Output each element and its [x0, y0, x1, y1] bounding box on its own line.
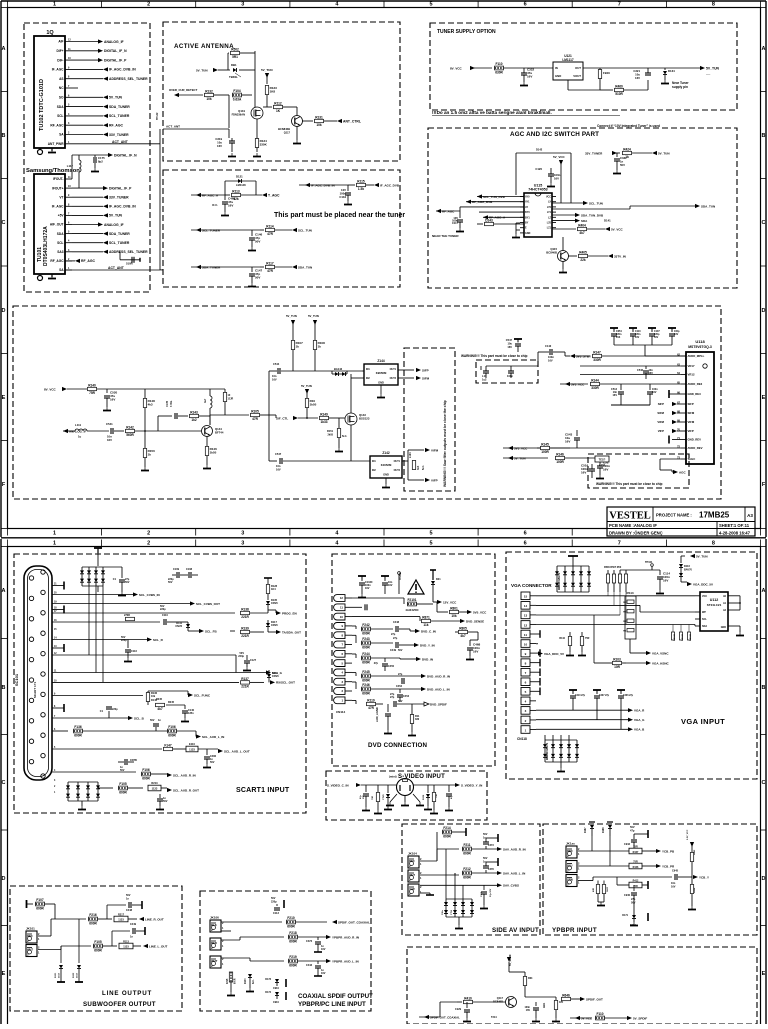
scart esd diode array bottom — [67, 782, 69, 801]
svg-text:5V_TUN: 5V_TUN — [109, 96, 123, 100]
cap C478 — [485, 870, 487, 873]
U118 pin 73 TAGC — [681, 458, 686, 460]
svg-text:C547: C547 — [506, 338, 513, 342]
svg-text:R132: R132 — [205, 89, 213, 93]
capacitor C322 — [521, 72, 527, 74]
net 3V3_VCC pin65 — [565, 382, 570, 386]
svg-text:5V_TUN: 5V_TUN — [706, 66, 720, 70]
U115 left pin AY0 — [520, 196, 524, 198]
svg-text:5V5_VCC: 5V5_VCC — [473, 610, 487, 614]
res R432 pair — [597, 881, 599, 885]
svg-text:WARNING!!! This part must be: WARNING!!! This part must be close to ch… — [461, 354, 527, 358]
res R137 row — [52, 681, 239, 683]
svg-text:R110: R110 — [559, 637, 565, 640]
svg-text:F218: F218 — [289, 931, 296, 935]
svg-text:560R: 560R — [126, 433, 134, 437]
svg-text:R149: R149 — [320, 412, 328, 416]
capacitor C321 — [645, 72, 651, 74]
svg-text:D100: D100 — [245, 978, 247, 984]
net SCL_FB — [188, 630, 199, 632]
svg-text:F219: F219 — [289, 955, 296, 959]
svg-text:BC846B: BC846B — [546, 250, 557, 254]
svg-text:16V: 16V — [473, 650, 478, 654]
svg-text:1133: 1133 — [152, 786, 158, 790]
net SDA_TUN_DVB — [552, 214, 575, 216]
svg-text:TA/SDA_OUT: TA/SDA_OUT — [282, 630, 301, 634]
svg-text:16V: 16V — [507, 345, 512, 349]
svg-text:330R: 330R — [591, 386, 599, 390]
cap C443 coax — [317, 961, 319, 964]
svg-text:33V_TUNER: 33V_TUNER — [585, 151, 603, 155]
svg-text:C544: C544 — [273, 362, 280, 366]
svg-text:600R: 600R — [168, 733, 176, 737]
net SAV_CVBS — [497, 883, 502, 887]
capacitor C142 top — [549, 349, 551, 355]
svg-text:330K: 330K — [260, 143, 268, 147]
svg-text:F211: F211 — [463, 843, 470, 847]
cap C115 sideav — [483, 885, 485, 890]
svg-text:4-28-2008 16:47: 4-28-2008 16:47 — [719, 531, 751, 536]
svg-text:GND: GND — [383, 473, 389, 477]
svg-text:16V: 16V — [565, 440, 570, 444]
svg-text:SCL_AUD_L_IN: SCL_AUD_L_IN — [202, 735, 224, 739]
svg-text:4A/24VDC: 4A/24VDC — [405, 608, 418, 612]
svg-text:C108: C108 — [186, 568, 193, 571]
svg-text:DIGITAL_IF_P: DIGITAL_IF_P — [104, 58, 127, 62]
fuse F106 audio — [168, 729, 177, 733]
diode D114 — [267, 674, 271, 678]
cap C452 — [401, 678, 403, 684]
svg-text:R131: R131 — [315, 115, 323, 119]
net SPDIF_OUT_COAXIAL spdif — [424, 1015, 429, 1019]
active antenna dashed box — [163, 22, 400, 161]
svg-text:D141: D141 — [604, 219, 611, 223]
jack JK105 red — [566, 846, 577, 858]
svg-text:6: 6 — [524, 2, 527, 8]
svg-text:F214: F214 — [443, 826, 450, 830]
diode D117 — [266, 623, 270, 627]
svg-text:supply pin: supply pin — [672, 85, 688, 89]
svg-text:YLW: YLW — [409, 887, 415, 891]
svg-text:C115: C115 — [481, 891, 483, 897]
TU101 mount stub — [38, 276, 43, 281]
scart nc stub 4 — [52, 707, 64, 709]
svg-text:16V: 16V — [110, 398, 115, 402]
wire Q143 source — [350, 425, 352, 461]
resistor R152 tagc — [595, 456, 609, 462]
net TA SDA_OUT — [268, 631, 276, 633]
jack JK106 red — [210, 938, 221, 950]
svg-text:R443: R443 — [693, 849, 696, 855]
svg-text:D102: D102 — [73, 972, 75, 978]
sideav ylw stub — [420, 892, 430, 894]
svg-text:MMBZ15VDLT1: MMBZ15VDLT1 — [546, 742, 549, 760]
resistor R146 — [556, 456, 565, 459]
wire IFOUT+ — [72, 187, 103, 189]
svg-text:5V_VCC: 5V_VCC — [611, 227, 624, 231]
cap pair C109 C108 — [176, 572, 178, 578]
svg-text:OUT2: OUT2 — [394, 469, 401, 472]
svg-text:27p: 27p — [393, 637, 398, 640]
svg-text:F244: F244 — [362, 652, 369, 656]
cap C453 — [399, 689, 401, 693]
svg-text:DVD_Y_IN: DVD_Y_IN — [420, 643, 435, 647]
net SCL_AUD_R_OUT — [167, 788, 172, 792]
resistor R112 — [263, 106, 272, 108]
wire SA ACT_ANT — [65, 269, 160, 271]
U118 pin 71 GND_REV — [681, 439, 686, 441]
diode D111 row — [186, 624, 190, 628]
svg-text:SIFM: SIFM — [422, 376, 430, 380]
svg-text:4k3: 4k3 — [148, 403, 153, 407]
svg-text:F105: F105 — [94, 940, 101, 944]
svg-text:IF_AGC_DVB: IF_AGC_DVB — [380, 183, 400, 187]
net AGC — [673, 470, 678, 474]
svg-text:C142: C142 — [545, 344, 552, 348]
svg-text:SCL_TUN: SCL_TUN — [589, 201, 603, 205]
svg-text:3: 3 — [241, 541, 244, 547]
transistor Q117 BCN846B — [292, 116, 303, 127]
svg-text:F216: F216 — [89, 913, 96, 917]
fuse F108 audio L in — [52, 730, 68, 732]
svg-text:E110: E110 — [189, 742, 195, 746]
net DIGITAL_IF_P — [103, 186, 108, 190]
svg-text:75R: 75R — [436, 794, 438, 798]
svg-text:R404: R404 — [578, 223, 586, 227]
fuse F110 spdif — [596, 1016, 605, 1020]
ground Z144 — [380, 385, 382, 394]
svg-text:12V_VCC: 12V_VCC — [443, 600, 457, 604]
svg-text:R152: R152 — [599, 463, 606, 467]
wire scart B row — [52, 717, 128, 719]
cap C486 — [206, 749, 208, 755]
svg-text:330R: 330R — [593, 358, 601, 362]
transistor Q115 BC846B — [558, 251, 569, 262]
fuse F212 — [420, 874, 459, 876]
wire gate join — [228, 95, 230, 128]
fuse F210 — [221, 921, 282, 923]
svg-text:5102: 5102 — [77, 972, 79, 978]
svg-text:CNV6: CNV6 — [271, 624, 278, 627]
svg-text:RF_AGC: RF_AGC — [109, 124, 123, 128]
svg-text:SCL_AUD_R_IN: SCL_AUD_R_IN — [173, 773, 196, 777]
net 5V_TUN — [72, 214, 103, 216]
svg-text:T214: T214 — [491, 1016, 497, 1019]
capacitor C547 top — [514, 338, 522, 340]
resistor R128 prog — [266, 585, 269, 594]
wire collector row — [209, 415, 211, 425]
svg-text:GND: GND — [378, 381, 384, 385]
svg-text:SAV_CVBS: SAV_CVBS — [503, 884, 519, 888]
cap C473 coax — [317, 937, 319, 940]
svg-text:16V: 16V — [217, 144, 222, 148]
cap C119 dvd — [387, 704, 389, 712]
svg-text:PROJECT NAME :: PROJECT NAME : — [656, 513, 692, 518]
near tuner dashed box — [163, 170, 400, 287]
svg-text:SDA_TUNER: SDA_TUNER — [109, 105, 130, 109]
svg-text:R142: R142 — [126, 425, 134, 429]
svg-text:VGA_G: VGA_G — [634, 718, 645, 722]
svg-text:C134: C134 — [339, 195, 346, 199]
svg-text:R446: R446 — [633, 866, 639, 869]
svg-text:TP101: TP101 — [645, 561, 653, 564]
svg-text:10k: 10k — [206, 97, 212, 101]
res R646b — [562, 997, 571, 1000]
svg-text:ADDRESS_SEL_TUNER: ADDRESS_SEL_TUNER — [109, 250, 148, 254]
svg-text:DIF+: DIF+ — [57, 49, 64, 53]
svg-text:16V: 16V — [603, 468, 608, 472]
svg-text:IN: IN — [555, 66, 558, 70]
svg-text:CN114: CN114 — [336, 710, 346, 714]
U118 pin 72 AVDD_REV — [681, 447, 686, 449]
wire drain rail — [254, 51, 256, 96]
svg-text:YCB_PR: YCB_PR — [662, 864, 675, 868]
svg-text:50V: 50V — [210, 761, 215, 764]
svg-text:C546: C546 — [637, 369, 644, 372]
res R217 — [114, 916, 128, 922]
net SDA_TUN — [292, 265, 297, 269]
svg-text:2: 2 — [147, 531, 150, 537]
svg-text:A: A — [762, 46, 766, 52]
net T_AGC — [262, 193, 267, 197]
svg-text:D168: D168 — [603, 827, 605, 833]
inductor L117 — [79, 160, 81, 172]
U118 pin 62 AVDD_MPLL — [681, 355, 686, 357]
svg-text:C117: C117 — [452, 221, 459, 225]
svg-text:SC101: SC101 — [14, 673, 19, 686]
wire dvd 11 — [352, 606, 362, 608]
wire source down — [256, 119, 258, 152]
resistor R147 — [593, 354, 602, 357]
svg-text:JK101: JK101 — [26, 927, 35, 931]
net DVD_C_IN — [415, 629, 420, 633]
svg-text:C942: C942 — [624, 843, 631, 846]
net SIFM from Z144 — [398, 377, 414, 379]
svg-text:R502: R502 — [231, 47, 239, 51]
svg-text:16V: 16V — [107, 438, 112, 442]
scart vertical bus — [88, 586, 90, 655]
svg-text:SO: SO — [59, 96, 64, 100]
res R444 — [691, 877, 693, 884]
svg-text:1k: 1k — [296, 345, 300, 349]
svg-text:5V_SPDIF: 5V_SPDIF — [509, 954, 512, 966]
svg-text:1k: 1k — [148, 453, 152, 457]
net LINE_L_OUT — [143, 944, 148, 948]
svg-text:1: 1 — [53, 541, 56, 547]
resistor R151 NC — [338, 418, 340, 428]
vga wire p2 G — [536, 719, 628, 721]
svg-text:600R: 600R — [362, 660, 370, 664]
saw warning dashed box — [404, 348, 455, 491]
svg-text:S_VIDEO_C_IN: S_VIDEO_C_IN — [327, 783, 349, 787]
svg-text:5V_SPDIF: 5V_SPDIF — [633, 1016, 647, 1020]
capacitor C319 — [228, 129, 230, 138]
U115 left pin BY — [520, 222, 524, 224]
svg-text:F212: F212 — [463, 867, 470, 871]
svg-text:16V: 16V — [526, 1009, 531, 1012]
svg-text:MMBZ15VDLT1: MMBZ15VDLT1 — [558, 572, 561, 590]
svg-text:SCL: SCL — [702, 618, 707, 621]
svg-text:IF_AGC_DVB_IN: IF_AGC_DVB_IN — [109, 205, 136, 209]
net DVD_Y_IN — [414, 643, 419, 647]
svg-text:D: D — [762, 308, 766, 314]
spdif driver dashed box — [407, 947, 757, 1024]
svg-text:RED: RED — [409, 859, 415, 863]
svg-text:6: 6 — [524, 541, 527, 547]
net VGA_VSNC — [629, 639, 631, 653]
fuse F215 vertical — [230, 931, 232, 972]
U115 gnd stub — [515, 223, 517, 234]
svg-text:12: 12 — [524, 623, 528, 627]
svg-text:YPBPR_AUD_R_IN: YPBPR_AUD_R_IN — [332, 935, 359, 939]
svg-text:AS: AS — [59, 77, 63, 81]
svg-text:4k64: 4k64 — [543, 1002, 546, 1008]
capacitor C146 — [251, 230, 253, 236]
bottom warning dashed box — [588, 454, 689, 488]
net 5V_VCC spdif — [575, 1016, 580, 1020]
res R129 330 — [126, 617, 135, 620]
resistor network RS13 — [625, 596, 636, 639]
wire emitter ground — [296, 127, 298, 141]
svg-text:16V: 16V — [674, 333, 679, 336]
svg-text:C: C — [2, 220, 6, 226]
U118 pin72 wire — [528, 447, 681, 449]
svg-text:R412: R412 — [633, 879, 639, 882]
net SCL_R — [147, 637, 152, 641]
svg-text:F215: F215 — [227, 978, 229, 984]
connector CN114 — [334, 595, 345, 602]
svg-text:AGC: AGC — [679, 470, 687, 474]
svg-text:R447: R447 — [633, 851, 639, 854]
svg-text:R805: R805 — [459, 626, 467, 630]
svg-text:SCL_B: SCL_B — [134, 716, 145, 720]
svg-text:220p: 220p — [121, 639, 127, 642]
res R103 hsync — [613, 661, 622, 664]
svg-text:R245: R245 — [156, 698, 163, 701]
resistor R405 — [568, 255, 577, 257]
svg-text:D101: D101 — [55, 972, 57, 978]
capacitor C547 series — [279, 458, 281, 464]
svg-text:LINE_L_OUT: LINE_L_OUT — [149, 944, 168, 948]
svg-text:33TV_IN: 33TV_IN — [614, 254, 626, 258]
svg-text:SA3: SA3 — [57, 250, 63, 254]
scart dashed box — [14, 554, 306, 813]
resistor R154 pullup — [305, 399, 308, 408]
capacitor C460 — [224, 195, 226, 200]
svg-text:0.63A: 0.63A — [233, 97, 242, 101]
svg-text:A: A — [762, 588, 766, 594]
net SAV_AUD_R_IN — [497, 847, 502, 851]
svg-text:FB16: FB16 — [603, 71, 610, 75]
cap C449 lineout — [111, 931, 113, 946]
svg-text:(mini): (mini) — [389, 775, 397, 779]
svg-text:1K: 1K — [276, 109, 281, 113]
vga dashed box — [506, 552, 757, 779]
cap K2 1n — [159, 794, 161, 798]
svg-text:F136: F136 — [74, 725, 81, 729]
svg-text:SCL_FUNC: SCL_FUNC — [194, 693, 211, 697]
vga rgb caps — [569, 689, 577, 691]
wire ypbpr pb row — [578, 850, 629, 852]
svg-text:L117: L117 — [67, 164, 74, 168]
svg-text:RF_AGC: RF_AGC — [81, 259, 95, 263]
jack JK104 wht — [408, 870, 419, 882]
svideo DIN connector — [397, 779, 414, 796]
svg-text:C452: C452 — [396, 685, 403, 688]
svg-text:10k: 10k — [451, 614, 457, 618]
svg-text:SCL_TUN: SCL_TUN — [298, 228, 312, 232]
diode DB1 TBD1L — [228, 69, 230, 71]
svg-text:2: 2 — [147, 2, 150, 8]
svg-text:C: C — [762, 220, 766, 226]
svg-text:K9656M: K9656M — [376, 371, 387, 375]
net 3V3_STBY — [570, 354, 575, 358]
svg-text:C541: C541 — [106, 422, 113, 426]
svg-text:F106: F106 — [142, 768, 149, 772]
svg-text:SAV_AUD_L_IN: SAV_AUD_L_IN — [503, 871, 525, 875]
svg-text:VCC: VCC — [702, 595, 707, 598]
svg-text:600R: 600R — [289, 939, 297, 943]
svg-text:1k33: 1k33 — [320, 420, 327, 424]
net VIFP from Z142 — [408, 479, 424, 481]
svg-text:VGA_VSNC: VGA_VSNC — [652, 651, 669, 655]
svg-text:SCL_FB: SCL_FB — [205, 629, 218, 633]
svg-text:600R: 600R — [94, 948, 102, 952]
capacitor C163 on SA3 — [119, 252, 121, 260]
svg-text:C116: C116 — [131, 650, 137, 653]
svg-text:LINE OUTPUT: LINE OUTPUT — [102, 990, 152, 997]
fuse F104 — [233, 93, 242, 97]
svg-text:R147: R147 — [593, 350, 601, 354]
capacitor C515 pin65 — [649, 384, 651, 390]
svg-text:1133: 1133 — [189, 747, 195, 751]
svg-text:47R: 47R — [252, 417, 259, 421]
res R443 — [690, 853, 693, 862]
svg-text:50V: 50V — [630, 825, 635, 829]
svg-text:ANT_PWR: ANT_PWR — [48, 142, 64, 146]
ferrite FB16 — [598, 70, 601, 79]
net 5V_TUN lower — [508, 456, 513, 460]
U115 right pin LY0 — [552, 206, 556, 208]
svg-text:47R: 47R — [368, 706, 375, 710]
net SCL_AUD_L_OUT — [218, 749, 223, 753]
wire row371 to row461 — [268, 371, 270, 461]
svg-text:VGA_HSNC: VGA_HSNC — [652, 661, 670, 665]
svg-text:OUT: OUT — [575, 66, 581, 70]
svg-text:SIFM: SIFM — [688, 411, 695, 415]
svg-text:16V: 16V — [321, 972, 326, 975]
svg-text:+5V: +5V — [58, 214, 65, 218]
svg-text:8V_VCC: 8V_VCC — [450, 66, 463, 70]
svg-text:16V: 16V — [527, 75, 532, 79]
svg-text:1n: 1n — [130, 936, 133, 939]
net 3V3_VCC lower — [508, 446, 513, 450]
feedback C135 — [157, 416, 159, 431]
net YCB_PB — [656, 849, 661, 853]
cap C945 — [674, 874, 676, 880]
resistor R133 — [265, 86, 268, 95]
wire regulator out — [583, 67, 700, 69]
capacitor C513 — [599, 458, 601, 464]
svg-text:SDA_TUNER: SDA_TUNER — [109, 232, 130, 236]
resistor R142 — [126, 429, 135, 432]
net DVD_AUD_L_IN — [421, 687, 426, 691]
svg-text:R119: R119 — [367, 698, 375, 702]
jack JK105 grn — [566, 875, 577, 887]
svg-text:VGA_DDC_5V: VGA_DDC_5V — [544, 652, 564, 656]
svg-text:C940: C940 — [624, 894, 631, 897]
svg-text:75R: 75R — [372, 796, 374, 800]
